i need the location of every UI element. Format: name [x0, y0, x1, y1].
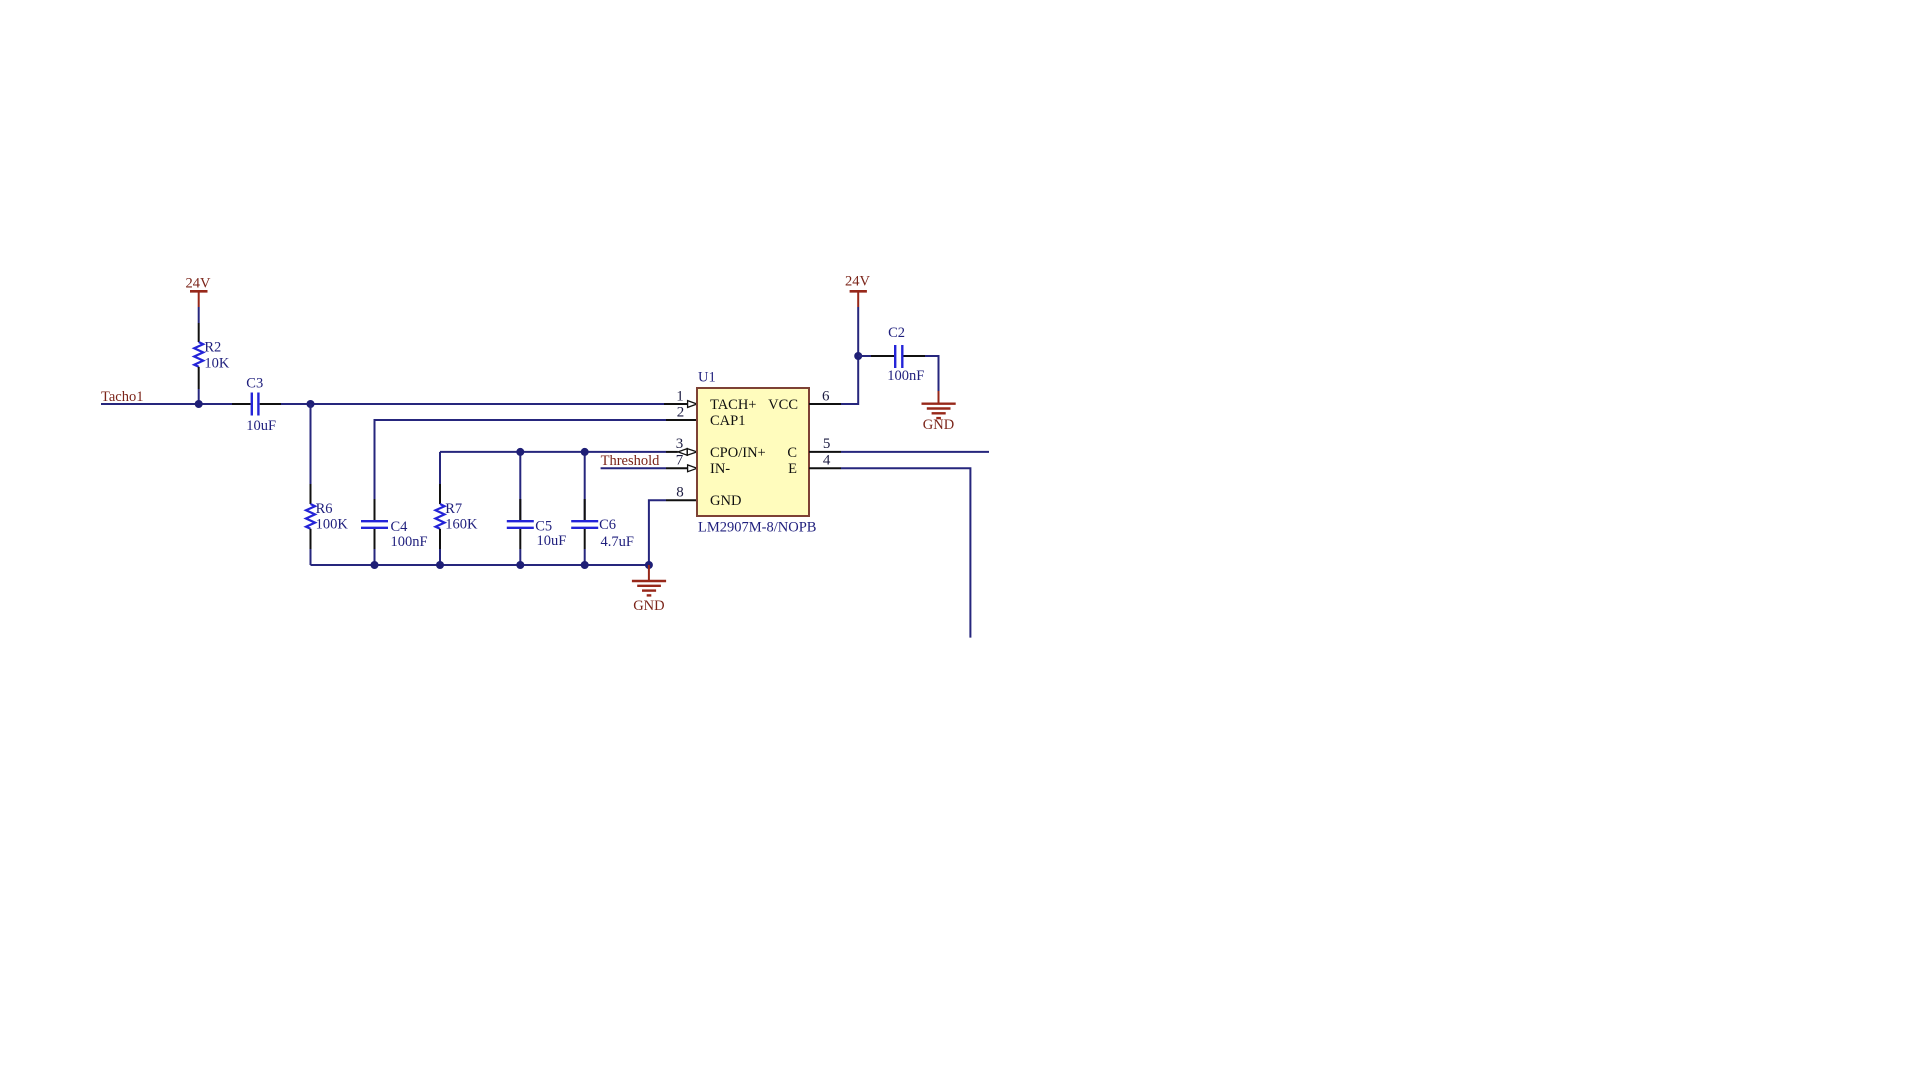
node junction C6 top — [581, 448, 589, 456]
node junction C4 bottom — [371, 561, 379, 569]
svg-text:100nF: 100nF — [887, 368, 924, 384]
svg-text:160K: 160K — [445, 517, 478, 533]
U1 pin names — [710, 397, 798, 509]
capacitor C4 — [361, 499, 428, 550]
wire R7 to bottom rail — [439, 549, 441, 565]
svg-text:LM2907M-8/NOPB: LM2907M-8/NOPB — [698, 520, 816, 536]
capacitor C2 — [858, 325, 925, 384]
wire C2 to GND — [925, 356, 939, 391]
capacitor C6 — [571, 452, 634, 565]
svg-text:5: 5 — [823, 436, 831, 452]
svg-text:3: 3 — [676, 436, 684, 452]
svg-text:10K: 10K — [204, 356, 230, 372]
svg-text:E: E — [788, 461, 797, 477]
svg-text:C6: C6 — [599, 517, 616, 533]
power port GND (right) — [922, 391, 956, 418]
svg-text:TACH+: TACH+ — [710, 397, 757, 413]
svg-text:GND: GND — [923, 417, 954, 433]
svg-text:4: 4 — [823, 453, 831, 469]
wire pin 5 (C output) — [841, 451, 989, 453]
svg-text:GND: GND — [710, 493, 741, 509]
svg-text:U1: U1 — [698, 370, 716, 386]
wire bottom rail — [311, 564, 649, 566]
wire R2 to node A — [198, 389, 200, 404]
wire C4 to bottom rail — [374, 549, 376, 565]
pin 4 stub — [809, 467, 841, 469]
pin 8 stub — [666, 499, 697, 501]
capacitor C3 — [232, 376, 281, 435]
power port GND (bottom) — [632, 565, 666, 595]
svg-text:IN-: IN- — [710, 461, 730, 477]
pin 3 stub with bidirectional arrow — [666, 448, 697, 456]
pin 2 stub — [666, 419, 697, 421]
svg-text:C4: C4 — [391, 519, 409, 535]
svg-text:Tacho1: Tacho1 — [101, 389, 143, 405]
power port 24V (left) — [190, 291, 208, 307]
svg-text:10uF: 10uF — [537, 533, 567, 549]
svg-text:1: 1 — [676, 389, 684, 405]
svg-text:7: 7 — [676, 453, 684, 469]
pin 1 stub with input arrow — [664, 401, 697, 408]
resistor R2 — [194, 323, 230, 389]
svg-text:6: 6 — [822, 389, 830, 405]
power port 24V (right) — [850, 291, 867, 307]
svg-text:10uF: 10uF — [246, 418, 276, 434]
op-amp U1 body — [697, 388, 809, 516]
wire pin 2 to C4 top — [375, 419, 667, 499]
wire C3 to pin 1 — [281, 403, 664, 405]
svg-text:4.7uF: 4.7uF — [601, 534, 634, 550]
svg-text:C3: C3 — [246, 376, 263, 392]
pin 7 stub with input arrow — [666, 465, 697, 472]
wire Tacho1 horizontal — [101, 403, 232, 405]
node junction R7 bottom — [436, 561, 444, 569]
capacitor C5 — [507, 452, 567, 565]
wire top rail (pin 3) — [440, 451, 666, 453]
svg-text:100K: 100K — [316, 517, 349, 533]
svg-text:GND: GND — [633, 598, 664, 614]
resistor R6 — [306, 484, 348, 549]
wire pin 6 to 24V — [841, 307, 858, 404]
node junction C5 bottom — [516, 561, 524, 569]
wire R6 to bottom rail — [310, 549, 312, 565]
wire pin 4 (E output) — [841, 468, 970, 637]
resistor R7 — [436, 484, 478, 549]
node junction C2 tap — [854, 352, 862, 360]
wire pin 8 to GND tap — [649, 500, 666, 565]
wire Threshold (pin 7) — [601, 467, 666, 469]
svg-text:R7: R7 — [445, 501, 462, 517]
svg-text:24V: 24V — [186, 276, 212, 292]
pin 5 stub — [809, 451, 841, 453]
svg-text:C: C — [787, 445, 797, 461]
node A junction — [195, 400, 203, 408]
svg-text:C2: C2 — [888, 325, 905, 341]
node junction GND tap — [645, 561, 653, 569]
wire node B down to R6 — [310, 404, 312, 484]
svg-text:100nF: 100nF — [391, 534, 428, 550]
svg-text:8: 8 — [676, 485, 684, 501]
wire top rail to R7 — [439, 452, 441, 484]
node B junction — [307, 400, 315, 408]
svg-text:Threshold: Threshold — [601, 453, 661, 469]
svg-text:24V: 24V — [845, 274, 871, 290]
pin 6 stub — [809, 403, 841, 405]
node junction C5 top — [516, 448, 524, 456]
svg-text:R2: R2 — [204, 339, 221, 355]
svg-text:R6: R6 — [316, 501, 333, 517]
svg-text:CPO/IN+: CPO/IN+ — [710, 445, 766, 461]
svg-text:CAP1: CAP1 — [710, 413, 745, 429]
wire 24V to R2 — [198, 307, 200, 323]
node junction C6 bottom — [581, 561, 589, 569]
svg-text:VCC: VCC — [768, 397, 798, 413]
svg-text:2: 2 — [677, 405, 685, 421]
